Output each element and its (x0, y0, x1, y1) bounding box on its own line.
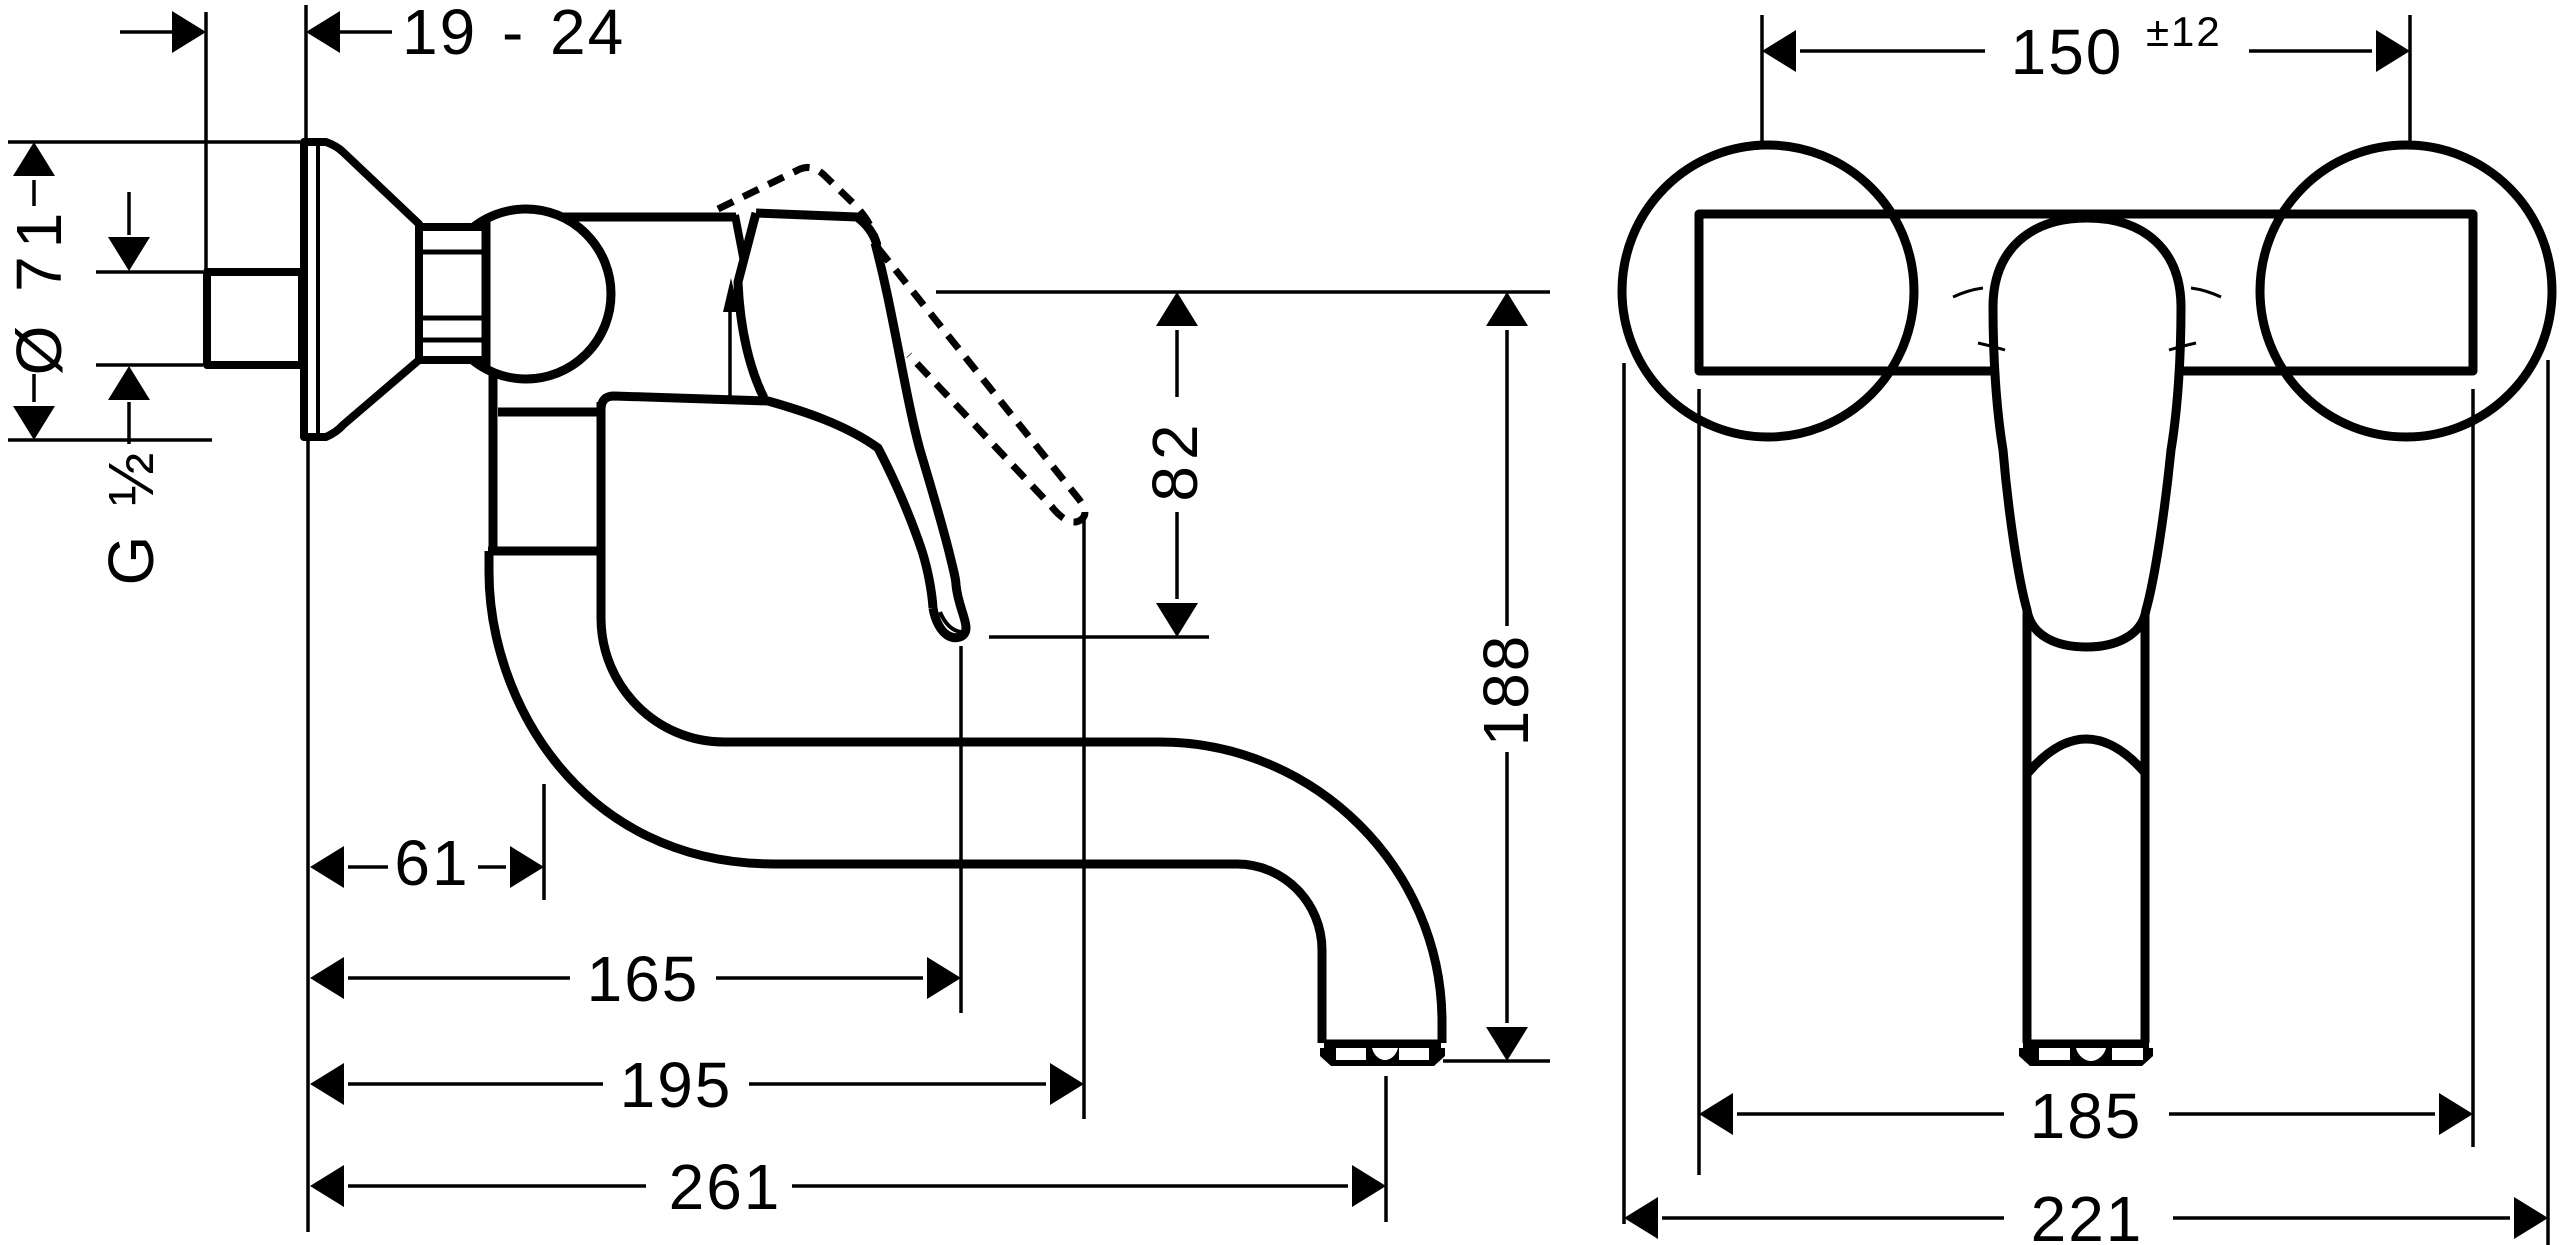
svg-text:G ½: G ½ (95, 447, 167, 586)
svg-text:261: 261 (669, 1151, 782, 1223)
svg-text:188: 188 (1470, 634, 1542, 747)
svg-text:±12: ±12 (2146, 8, 2222, 55)
svg-text:Ø 71: Ø 71 (3, 205, 75, 376)
svg-text:221: 221 (2031, 1183, 2144, 1245)
svg-text:-: - (502, 0, 525, 68)
svg-text:195: 195 (620, 1049, 733, 1121)
svg-text:61: 61 (394, 827, 469, 899)
svg-text:150: 150 (2011, 16, 2124, 88)
svg-text:82: 82 (1139, 418, 1211, 501)
svg-text:19: 19 (402, 0, 477, 68)
svg-text:165: 165 (587, 943, 700, 1015)
svg-text:24: 24 (550, 0, 625, 68)
svg-text:185: 185 (2030, 1080, 2143, 1152)
